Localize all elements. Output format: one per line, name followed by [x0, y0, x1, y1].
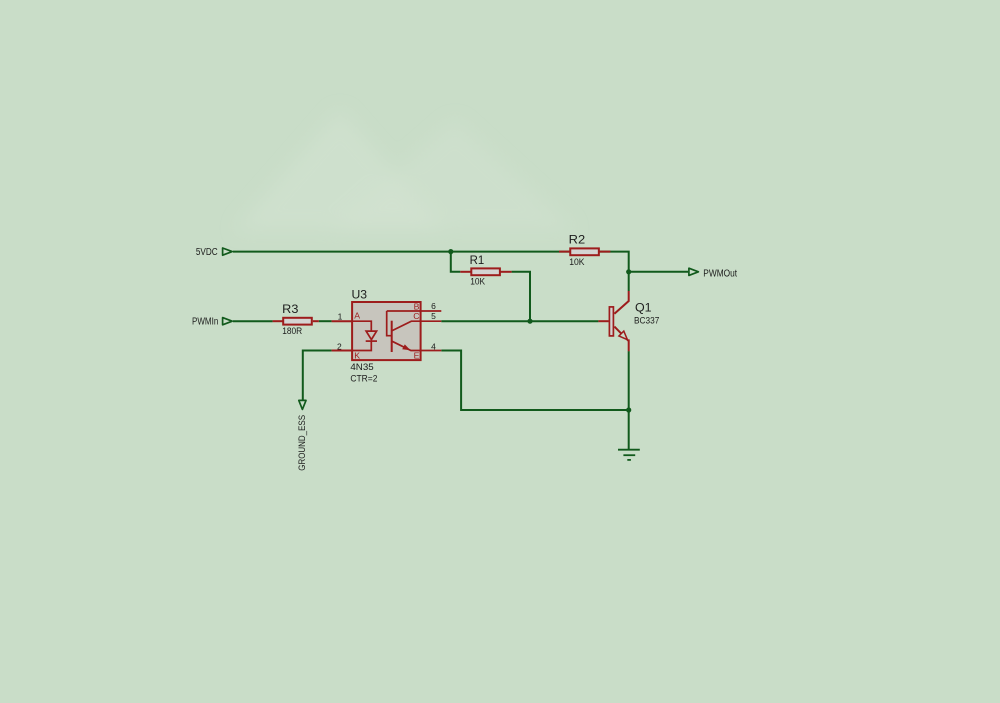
svg-text:10K: 10K	[569, 257, 585, 268]
svg-text:10K: 10K	[470, 277, 485, 288]
svg-text:K: K	[354, 351, 360, 361]
svg-text:PWMIn: PWMIn	[192, 317, 218, 328]
svg-text:R2: R2	[569, 233, 586, 247]
svg-text:U3: U3	[352, 288, 368, 302]
svg-text:BC337: BC337	[634, 315, 659, 326]
svg-text:4: 4	[431, 341, 436, 351]
svg-text:CTR=2: CTR=2	[350, 374, 377, 385]
svg-text:4N35: 4N35	[350, 362, 373, 373]
svg-text:5VDC: 5VDC	[196, 247, 218, 258]
svg-text:B: B	[414, 301, 420, 311]
svg-text:Q1: Q1	[635, 300, 652, 314]
svg-text:2: 2	[337, 341, 342, 351]
svg-text:1: 1	[338, 312, 343, 322]
svg-text:R1: R1	[470, 253, 485, 267]
svg-text:C: C	[413, 311, 419, 321]
svg-text:GROUND_ESS: GROUND_ESS	[297, 415, 308, 471]
svg-text:5: 5	[431, 311, 436, 321]
svg-text:R3: R3	[282, 302, 299, 316]
svg-text:E: E	[414, 350, 420, 360]
svg-text:6: 6	[431, 301, 436, 311]
svg-text:PWMOut: PWMOut	[703, 268, 737, 279]
svg-text:180R: 180R	[282, 326, 302, 337]
svg-text:A: A	[354, 310, 360, 320]
